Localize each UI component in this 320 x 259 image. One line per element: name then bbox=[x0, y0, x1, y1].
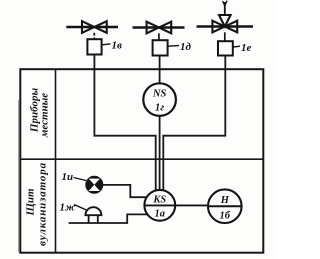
arrowhead on vent line bbox=[223, 1, 227, 6]
leader for label 1в bbox=[103, 44, 111, 45]
positioner box 1д bbox=[153, 40, 168, 55]
sidebar label: Приборы местные bbox=[29, 88, 51, 139]
pipe line of valve 1в bbox=[66, 26, 118, 29]
controller KS 1а bbox=[144, 190, 175, 221]
svg-text:H: H bbox=[220, 195, 230, 206]
sidebar divider bbox=[55, 69, 57, 253]
pipe line of valve 1д bbox=[133, 26, 185, 29]
wire from box 1е down to controller 1а bbox=[163, 56, 225, 201]
svg-text:1и: 1и bbox=[62, 171, 74, 183]
svg-text:NS: NS bbox=[152, 89, 167, 100]
svg-text:1ж: 1ж bbox=[60, 202, 77, 214]
svg-text:KS: KS bbox=[152, 195, 166, 206]
svg-text:1е: 1е bbox=[241, 42, 252, 54]
leader for 1ж bbox=[74, 205, 87, 211]
leader for label 1е bbox=[233, 45, 240, 48]
row divider bbox=[20, 158, 263, 160]
svg-text:местные: местные bbox=[39, 93, 51, 138]
stem from valve to box 1е bbox=[224, 32, 226, 41]
svg-text:1г: 1г bbox=[155, 103, 164, 114]
svg-text:1б: 1б bbox=[220, 211, 231, 222]
valve body 1в (two-way valve) bbox=[82, 21, 107, 33]
wire from controller 1а to indicator 1б bbox=[144, 204, 241, 206]
valve body 1д (two-way valve) bbox=[147, 22, 172, 34]
positioner box 1е bbox=[218, 41, 233, 55]
stem from valve to box 1д bbox=[158, 33, 160, 40]
leader for 1и bbox=[74, 178, 87, 181]
electric bell 1ж bbox=[85, 207, 101, 223]
svg-text:1а: 1а bbox=[155, 209, 166, 220]
svg-text:1д: 1д bbox=[180, 41, 192, 53]
valve body 1е (three-way valve) bbox=[212, 15, 237, 32]
wire from box 1д down through NS 1г to controller 1а bbox=[159, 56, 161, 201]
dashed stem from valve to box 1в bbox=[93, 33, 95, 39]
leader for label 1д bbox=[168, 45, 179, 48]
indicator H 1б bbox=[208, 189, 242, 223]
hand switch NS 1г bbox=[143, 83, 176, 116]
svg-text:Щит: Щит bbox=[25, 188, 37, 217]
wire from box 1в down to controller 1а bbox=[94, 55, 155, 201]
svg-text:1в: 1в bbox=[112, 40, 123, 52]
svg-text:вулканизатора: вулканизатора bbox=[37, 162, 49, 246]
left border shading (scan) bbox=[18, 100, 20, 252]
signal lamp 1и bbox=[86, 177, 102, 193]
wire from lamp 1и to controller 1а bbox=[103, 185, 151, 197]
vent line above valve 1е bbox=[224, 2, 226, 15]
pipe line of valve 1е bbox=[197, 25, 254, 28]
positioner box 1в bbox=[87, 39, 101, 54]
wire from bell 1ж to controller 1а bbox=[69, 214, 150, 223]
sidebar label: Щит вулканизатора bbox=[25, 162, 49, 246]
frame border bbox=[20, 69, 263, 253]
